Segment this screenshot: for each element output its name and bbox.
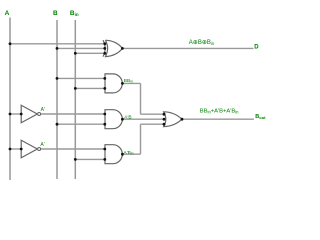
wire A to XOR input 1: [10, 43, 105, 45]
wire A vertical bus: [9, 18, 11, 181]
node A / NOT1 junction: [9, 113, 12, 116]
node B / AND1 junction: [56, 77, 59, 80]
svg-text:A: A: [5, 10, 10, 17]
wire XOR output to D: [122, 47, 253, 49]
node AND1 output pin: [121, 82, 124, 85]
node A / XOR wire junction: [9, 42, 12, 45]
op AND gate U3 (A'·B): [105, 110, 122, 129]
node NOT1 input pin: [20, 113, 23, 116]
node OR output pin: [181, 118, 184, 121]
wire B vertical bus: [56, 20, 58, 179]
svg-text:A': A': [40, 142, 44, 148]
wire AND3 output horizontal: [122, 153, 140, 155]
wire into OR input 3: [141, 123, 165, 125]
node XOR input pins: [103, 42, 106, 45]
wire NOT1 output to AND2 input 1: [41, 113, 105, 115]
svg-text:B: B: [53, 10, 58, 17]
node NOT2 input pin: [20, 148, 23, 151]
wire B to AND1 input 1: [57, 77, 105, 79]
op NOT gate U7 (A'): [21, 140, 37, 158]
node AND1 input pins: [103, 77, 106, 80]
wire OR output to Bout: [182, 118, 254, 120]
op AND gate U4 (A'·Bin): [105, 145, 122, 164]
node Bin / AND1 junction: [74, 87, 77, 90]
svg-text:Bin: Bin: [70, 10, 79, 17]
svg-text:A': A': [41, 107, 45, 113]
node Bin / XOR junction: [74, 52, 77, 55]
node AND2 input pins: [103, 113, 106, 116]
wire AND3 output vertical rise: [140, 124, 142, 154]
node AND2 output pin: [121, 118, 124, 121]
op AND gate U2 (B·Bin): [105, 74, 122, 93]
wire AND1 output vertical drop: [140, 83, 142, 114]
svg-text:BBin: BBin: [124, 78, 133, 84]
op NOT gate U6 (A'): [21, 105, 37, 123]
node AND3 output pin: [121, 153, 124, 156]
svg-text:Bout: Bout: [255, 114, 266, 120]
wire A to NOT1 input: [10, 113, 21, 115]
wire A to NOT2 input: [10, 148, 21, 150]
wire AND1 output horizontal: [122, 82, 140, 84]
op OR gate U5: [164, 112, 182, 127]
svg-text:A'B: A'B: [124, 115, 131, 121]
node B / XOR junction: [56, 47, 59, 50]
node B / AND2 junction: [56, 123, 59, 126]
node OR input pins: [163, 113, 166, 116]
node XOR output pin: [121, 47, 124, 50]
svg-text:BBin+A'B+A'Bin: BBin+A'B+A'Bin: [200, 109, 239, 115]
svg-text:A'Bin: A'Bin: [124, 150, 134, 156]
wire Bin vertical bus: [74, 20, 76, 179]
wire NOT2 output to AND3 input 1: [41, 148, 105, 150]
wire B to AND2 input 2: [57, 123, 105, 125]
node Bin / AND3 junction: [74, 158, 77, 161]
op XOR gate U1: [103, 40, 122, 56]
wire AND2 output to OR input 2: [122, 118, 164, 120]
wire B to XOR input 2: [57, 47, 105, 49]
wire Bin to XOR input 3: [75, 52, 105, 54]
svg-text:A⊕B⊕Bin: A⊕B⊕Bin: [189, 40, 215, 46]
wire Bin to AND1 input 2: [75, 87, 105, 89]
svg-text:D: D: [254, 44, 259, 50]
node A / NOT2 junction: [9, 148, 12, 151]
node AND3 input pins: [103, 148, 106, 151]
wire into OR input 1: [141, 113, 165, 115]
wire Bin to AND3 input 2: [75, 158, 105, 160]
